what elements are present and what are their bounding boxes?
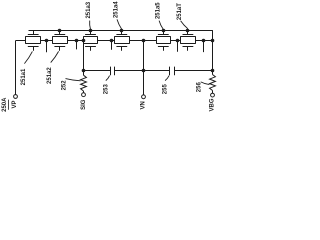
- wire: right-end vertical from rail down to bias bus: [212, 30, 214, 71]
- label 256 with leader: [196, 82, 209, 93]
- svg-text:251a5: 251a5: [156, 2, 162, 19]
- svg-text:251a2: 251a2: [47, 67, 53, 84]
- svg-text:253: 253: [103, 84, 109, 95]
- wire: main source-drain chain segments: [16, 40, 213, 42]
- transistor 251a5: [157, 30, 171, 51]
- wire: gate rail (top): [29, 30, 213, 32]
- svg-text:250A: 250A: [2, 97, 8, 112]
- wire: bias bus from SIG node to right end: [83, 70, 212, 72]
- transistor 251a2: [53, 30, 68, 51]
- svg-text:255: 255: [163, 84, 169, 95]
- svg-text:251a1: 251a1: [21, 68, 27, 85]
- svg-text:251a4: 251a4: [113, 1, 119, 18]
- label 251aT with leader: [177, 3, 188, 29]
- svg-text:256: 256: [196, 82, 202, 93]
- label VBG: [210, 98, 216, 111]
- svg-text:VBG: VBG: [210, 98, 216, 111]
- node VN: drop from chain to terminal: [142, 39, 146, 95]
- terminal VP circle: [14, 95, 18, 99]
- transistor 251aT: [181, 30, 196, 51]
- label 252 with leader: [62, 79, 81, 91]
- label 251a1 with leader: [21, 51, 33, 85]
- terminal SIG circle: [82, 93, 86, 97]
- label 251a4 with leader: [113, 1, 121, 30]
- junction dots on gate rail: [58, 29, 190, 33]
- svg-text:VP: VP: [12, 100, 18, 108]
- svg-text:251aT: 251aT: [177, 3, 183, 20]
- label VN: [141, 101, 147, 109]
- label SIG: [81, 99, 87, 110]
- capacitor 255: [170, 67, 175, 76]
- label 251a5 with leader: [156, 2, 164, 30]
- junction dot right end of chain: [211, 39, 215, 43]
- resistor 256 on right-end drop to VBG: [210, 69, 216, 93]
- svg-text:VN: VN: [141, 101, 147, 109]
- node VP: left end corner and drop: [15, 40, 17, 94]
- transistor 251a1: [26, 30, 41, 51]
- terminal VBG circle: [211, 93, 215, 97]
- label 251a2 with leader: [47, 51, 59, 84]
- label 251a3 with leader: [86, 1, 92, 29]
- label 255 with leader: [163, 76, 169, 95]
- resistor 252: [81, 75, 87, 93]
- capacitor 253: [111, 67, 115, 76]
- terminal VN circle: [142, 95, 146, 99]
- transistor 251a3: [84, 30, 98, 51]
- svg-text:SIG: SIG: [81, 99, 87, 110]
- svg-text:252: 252: [62, 80, 68, 91]
- transistor 251a4: [115, 30, 130, 51]
- label 250A branch designator: [2, 97, 9, 112]
- hanging body stubs on chain nodes: [45, 39, 49, 53]
- label 253 with leader: [103, 76, 109, 95]
- label VP: [12, 100, 18, 108]
- node SIG: drop from chain through resistor 252: [82, 39, 86, 75]
- svg-text:251a3: 251a3: [86, 1, 92, 18]
